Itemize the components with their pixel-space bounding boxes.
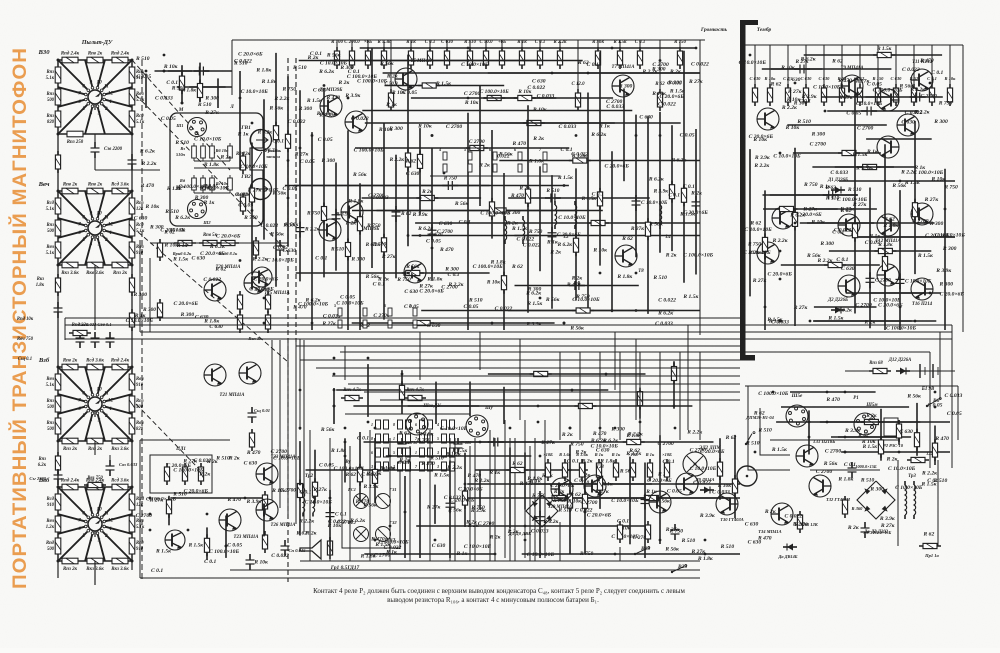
svg-text:Rвч 750: Rвч 750: [17, 337, 34, 342]
svg-text:Rпд 10к: Rпд 10к: [17, 317, 34, 322]
svg-text:Сщ 0.1: Сщ 0.1: [18, 357, 32, 362]
